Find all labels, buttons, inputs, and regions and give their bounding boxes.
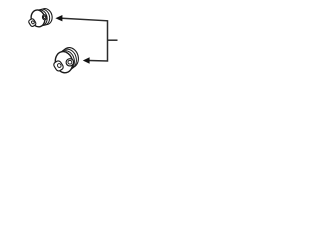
flange front face bbox=[53, 50, 75, 75]
center hole bbox=[68, 60, 72, 64]
stub bbox=[108, 39, 118, 41]
arrow 2 bbox=[83, 57, 90, 64]
back rim arcs bbox=[37, 7, 54, 26]
leader line / callout bracket bbox=[62, 18, 108, 61]
boss inner bore bbox=[31, 20, 35, 24]
boss inner bore bbox=[57, 63, 62, 68]
component 2 (cap nut) bbox=[53, 46, 81, 75]
hub collar ring bbox=[65, 58, 74, 67]
front boss face bbox=[53, 60, 65, 72]
hub collar ring bbox=[42, 14, 47, 20]
arrow 1 bbox=[55, 15, 62, 21]
front boss face bbox=[28, 18, 37, 27]
component 1 (cap nut) bbox=[28, 7, 54, 28]
center hole bbox=[43, 16, 45, 18]
flange front face bbox=[29, 9, 46, 29]
back rim arcs bbox=[59, 46, 80, 70]
